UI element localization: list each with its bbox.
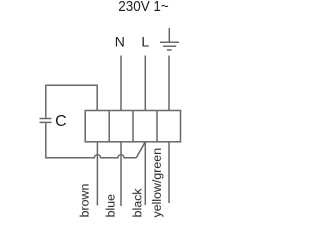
wire capacitor loop bottom (hops over brown and blue wires) (46, 123, 137, 158)
svg-text:230V 1~: 230V 1~ (118, 0, 169, 15)
svg-text:black: black (130, 188, 144, 218)
wire N (120, 56, 122, 111)
svg-text:brown: brown (78, 184, 92, 218)
capacitor C (40, 119, 52, 123)
svg-text:blue: blue (104, 194, 118, 218)
ground symbol (160, 28, 179, 50)
wire L (144, 56, 146, 111)
wire yellow/green (168, 142, 170, 203)
svg-text:L: L (141, 34, 149, 50)
wire diagonal junction to terminal 3 (136, 142, 145, 158)
terminal block (85, 111, 180, 142)
svg-text:C: C (55, 113, 67, 130)
svg-text:N: N (115, 33, 125, 49)
svg-text:yellow/green: yellow/green (150, 148, 164, 218)
wire black (144, 142, 146, 205)
wire PE (168, 56, 170, 111)
wire blue (120, 142, 122, 206)
wire brown (96, 142, 98, 206)
wire capacitor loop top (46, 85, 97, 118)
